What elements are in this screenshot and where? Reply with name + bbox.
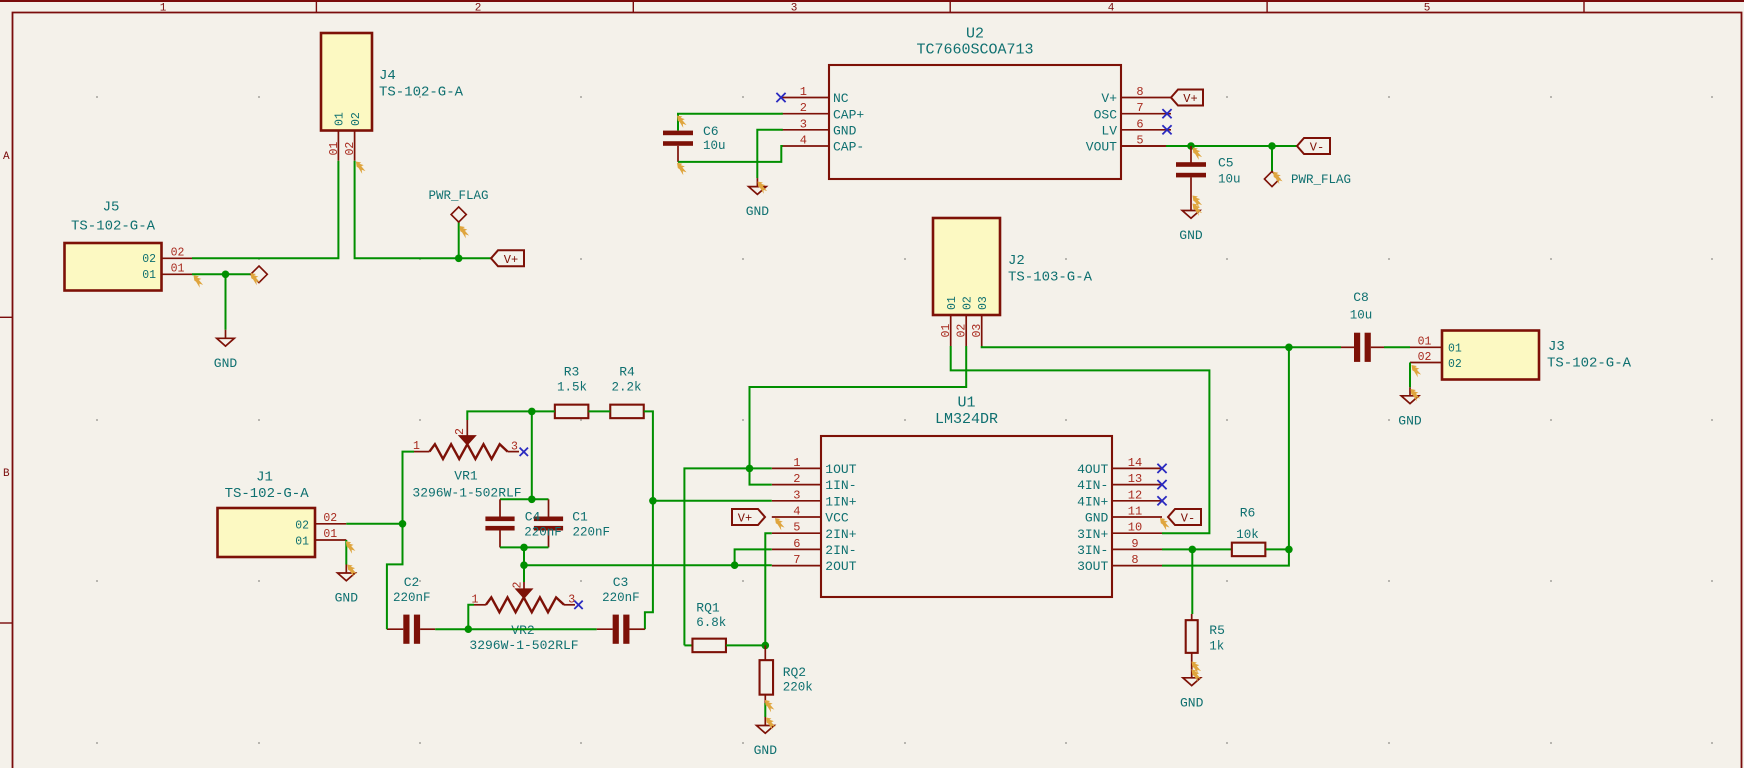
svg-text:01: 01 <box>334 112 347 126</box>
svg-text:8: 8 <box>1131 553 1138 567</box>
wire U2 CAP+ to C6 <box>678 114 783 131</box>
svg-text:C2: C2 <box>404 575 420 590</box>
junction R3 left node <box>528 408 536 416</box>
svg-text:3OUT: 3OUT <box>1077 559 1108 574</box>
svg-text:2: 2 <box>512 582 525 589</box>
junction J5.01 <box>222 271 230 279</box>
svg-text:6: 6 <box>1136 117 1143 131</box>
power label V+ at U2 pin 8 <box>1171 90 1203 107</box>
wire PWR_FLAG stem <box>458 222 460 258</box>
U1 pin 14 4OUT <box>1077 456 1162 477</box>
wire to GND at J5 <box>225 274 227 330</box>
marker arrow <box>1160 518 1170 530</box>
svg-text:4: 4 <box>793 505 800 519</box>
capacitor C2 <box>387 575 435 644</box>
marker arrow <box>1411 389 1421 401</box>
svg-text:2OUT: 2OUT <box>825 559 856 574</box>
ground GND (J3) <box>1398 387 1422 428</box>
svg-text:C1: C1 <box>572 510 588 525</box>
U1 pin 8 3OUT <box>1077 553 1162 574</box>
svg-text:02: 02 <box>956 324 969 338</box>
marker arrow <box>194 275 204 287</box>
wire C2 to VR2 node <box>435 628 468 630</box>
U2 pin 4 CAP- <box>781 134 864 155</box>
wire VR1 wiper to R3 <box>467 411 555 420</box>
power label V+ at U1 VCC <box>732 509 765 526</box>
connector J2 <box>933 218 1093 346</box>
svg-text:8: 8 <box>1136 85 1143 99</box>
wire PWR_FLAG V- stem <box>1271 146 1273 172</box>
U1 pin 2 1IN- <box>772 472 857 493</box>
svg-text:1: 1 <box>800 85 807 99</box>
svg-text:4IN-: 4IN- <box>1077 478 1108 493</box>
svg-text:02: 02 <box>1448 358 1462 371</box>
op-amp U1 LM324DR body <box>821 395 1112 598</box>
svg-text:3: 3 <box>793 488 800 502</box>
svg-text:1: 1 <box>793 456 800 470</box>
svg-text:220nF: 220nF <box>573 525 611 539</box>
svg-text:J3: J3 <box>1548 339 1565 355</box>
svg-text:1k: 1k <box>1209 639 1224 653</box>
svg-text:U2: U2 <box>966 26 984 43</box>
junction C4/C1 top <box>528 496 536 504</box>
svg-text:5: 5 <box>1424 3 1431 15</box>
svg-text:7: 7 <box>1136 101 1143 115</box>
wire J1.02 to VR1 node <box>346 523 402 525</box>
U1 pin 10 3IN+ <box>1077 521 1162 542</box>
svg-text:02: 02 <box>962 296 975 310</box>
svg-text:4: 4 <box>800 134 807 148</box>
power flag PWR_FLAG (V- net) <box>1264 171 1351 187</box>
svg-text:10u: 10u <box>1218 173 1241 187</box>
svg-text:11: 11 <box>1128 505 1142 519</box>
svg-text:2.2k: 2.2k <box>611 380 641 394</box>
ground GND (C5) <box>1179 202 1203 243</box>
marker arrow <box>1412 365 1422 377</box>
U1 pin 1 1OUT <box>772 456 857 477</box>
potentiometer VR2 3296W-1-502RLF <box>469 582 578 654</box>
junction RQ1/RQ2/2IN+ <box>762 642 770 650</box>
svg-text:J1: J1 <box>256 470 273 486</box>
svg-text:C8: C8 <box>1353 290 1369 305</box>
U2 pin 3 GND <box>781 117 857 138</box>
svg-text:LM324DR: LM324DR <box>935 411 998 428</box>
svg-text:V+: V+ <box>1183 92 1197 106</box>
svg-text:6.8k: 6.8k <box>696 616 726 630</box>
no-connect X U2 pin 6 <box>1162 125 1171 134</box>
svg-text:TS-103-G-A: TS-103-G-A <box>1008 270 1093 286</box>
no-connect X U2 pin 7 <box>1162 109 1171 118</box>
wire J4.02 to V+ flag <box>355 161 491 259</box>
resistor RQ2 <box>760 645 813 703</box>
capacitor C3 <box>597 575 645 644</box>
C1 value labels <box>572 510 610 540</box>
svg-text:CAP-: CAP- <box>833 140 864 155</box>
wire U1 3OUT loop <box>1162 549 1289 565</box>
U2 pin 5 VOUT <box>1086 134 1171 155</box>
wire 2IN- drop <box>735 549 772 565</box>
wire U2 VOUT to V- <box>1121 145 1297 147</box>
svg-text:3: 3 <box>791 3 798 15</box>
svg-text:2IN+: 2IN+ <box>825 527 856 542</box>
svg-text:01: 01 <box>1418 336 1432 349</box>
svg-text:A: A <box>3 151 10 163</box>
svg-text:B: B <box>3 468 10 480</box>
marker arrow <box>1192 670 1202 682</box>
wire U2 CAP- to C6 bottom <box>678 146 783 162</box>
connector J1 <box>218 470 347 558</box>
svg-text:OSC: OSC <box>1094 107 1118 122</box>
svg-text:1: 1 <box>160 3 167 15</box>
wire R3 node down to C4/C1 <box>531 411 533 499</box>
junction C5 top <box>1187 142 1195 150</box>
svg-text:PWR_FLAG: PWR_FLAG <box>1291 173 1351 187</box>
junction 2IN- on 2OUT rail <box>731 561 739 569</box>
svg-text:3: 3 <box>568 594 575 607</box>
svg-text:2: 2 <box>793 472 800 486</box>
svg-text:TC7660SCOA713: TC7660SCOA713 <box>916 42 1033 59</box>
ground GND (U2) <box>746 178 770 219</box>
capacitor C4 <box>485 499 514 547</box>
svg-text:3IN+: 3IN+ <box>1077 527 1108 542</box>
svg-text:GND: GND <box>1180 695 1204 710</box>
junction 1IN+ node <box>649 497 657 505</box>
wire VR2 node to C3 <box>468 628 596 630</box>
marker arrow <box>251 273 261 285</box>
svg-text:4IN+: 4IN+ <box>1077 494 1108 509</box>
svg-text:LV: LV <box>1101 123 1117 138</box>
svg-text:GND: GND <box>335 591 359 606</box>
U1 pin 12 4IN+ <box>1077 488 1162 509</box>
wire J5.02 to J4.01 <box>192 161 338 259</box>
potentiometer VR1 3296W-1-502RLF <box>412 420 521 500</box>
power flag PWR_FLAG (V+ net) <box>428 189 488 222</box>
resistor R4 <box>610 365 644 419</box>
svg-text:VR2: VR2 <box>511 623 534 638</box>
svg-text:2: 2 <box>454 428 467 435</box>
resistor R3 <box>555 365 589 419</box>
capacitor C8 <box>1350 290 1373 362</box>
svg-text:C5: C5 <box>1218 156 1234 171</box>
junction 1OUT <box>746 465 754 473</box>
svg-text:220nF: 220nF <box>524 525 562 539</box>
C4 value labels <box>524 510 562 540</box>
svg-text:J2: J2 <box>1008 253 1025 269</box>
wire RQ2 to ground <box>764 703 766 717</box>
svg-text:02: 02 <box>344 142 357 156</box>
svg-text:3296W-1-502RLF: 3296W-1-502RLF <box>412 485 521 500</box>
power label V- <box>1297 138 1330 155</box>
svg-text:9: 9 <box>1131 537 1138 551</box>
wire J1.02 node up to VR1 pin1 <box>403 452 415 524</box>
svg-text:01: 01 <box>323 528 337 541</box>
wire C8 left lead <box>1289 346 1354 348</box>
svg-text:1IN-: 1IN- <box>825 478 856 493</box>
no-connect X VR2 pin 3 <box>574 601 582 609</box>
ground GND (J1) <box>335 565 359 606</box>
svg-text:02: 02 <box>142 253 156 266</box>
svg-text:5: 5 <box>793 521 800 535</box>
svg-text:02: 02 <box>1418 351 1432 364</box>
no-connect X VR1 pin 3 <box>520 448 528 456</box>
svg-text:02: 02 <box>171 247 185 260</box>
connector J4 <box>321 33 464 161</box>
marker arrow <box>1192 662 1202 674</box>
U2 pin 6 LV <box>1101 117 1171 138</box>
marker arrow <box>356 162 366 174</box>
junction VR2 wiper node <box>520 561 528 569</box>
svg-text:TS-102-G-A: TS-102-G-A <box>225 486 310 502</box>
wire 1IN+ from R4/C3 node <box>653 500 772 502</box>
junction PWR_FLAG/V+ <box>455 254 463 262</box>
connector J5 <box>65 200 193 291</box>
svg-text:VR1: VR1 <box>454 469 478 484</box>
svg-text:01: 01 <box>328 142 341 156</box>
U1 pin 3 1IN+ <box>772 488 857 509</box>
svg-text:J5: J5 <box>103 200 120 216</box>
svg-text:C6: C6 <box>703 124 719 139</box>
junction 3IN-/R5 <box>1189 546 1197 554</box>
power label V- at U1 pin 11 <box>1168 509 1201 526</box>
svg-text:02: 02 <box>323 512 337 525</box>
wire VR2 pin1 elbow <box>468 605 474 629</box>
svg-text:RQ1: RQ1 <box>696 601 720 616</box>
U1 pin 13 4IN- <box>1077 472 1162 493</box>
svg-text:01: 01 <box>142 269 156 282</box>
svg-text:CAP+: CAP+ <box>833 107 864 122</box>
svg-text:NC: NC <box>833 91 849 106</box>
U1 pin 6 2IN- <box>772 537 857 558</box>
wire C8 node down to R6/3OUT <box>1288 347 1290 549</box>
svg-text:GND: GND <box>1179 228 1203 243</box>
svg-text:3296W-1-502RLF: 3296W-1-502RLF <box>469 638 578 653</box>
svg-text:GND: GND <box>1085 511 1109 526</box>
svg-text:10k: 10k <box>1236 528 1259 542</box>
capacitor C5 <box>1176 146 1241 202</box>
svg-text:R4: R4 <box>619 365 635 380</box>
wire J5.01 to PWR_FLAG diamond <box>192 273 251 275</box>
svg-text:2IN-: 2IN- <box>825 543 856 558</box>
U2 pin 7 OSC <box>1094 101 1171 122</box>
wire caps bottom to 2OUT rail <box>523 547 525 565</box>
wire J2.03 to C8 <box>982 346 1289 347</box>
wire U1 3IN- to R6 <box>1162 548 1231 550</box>
svg-text:01: 01 <box>940 324 953 338</box>
svg-text:3: 3 <box>511 441 518 454</box>
junction C4/C1 bottom <box>520 544 528 552</box>
svg-text:VCC: VCC <box>825 511 849 526</box>
svg-text:V+: V+ <box>504 253 518 267</box>
wire J1.01 to ground <box>345 540 347 565</box>
connector J3 <box>1410 331 1632 380</box>
marker arrow <box>1273 172 1283 184</box>
svg-text:14: 14 <box>1128 456 1142 470</box>
junction PWR_FLAG V- <box>1268 142 1276 150</box>
svg-text:J4: J4 <box>379 68 396 84</box>
svg-text:10: 10 <box>1128 521 1142 535</box>
svg-text:V+: V+ <box>738 512 752 526</box>
wire J2.01 to U1 3IN+ <box>951 346 1210 533</box>
svg-text:V-: V- <box>1310 141 1324 155</box>
svg-text:TS-102-G-A: TS-102-G-A <box>379 85 464 101</box>
op IC U2 TC7660SCOA713 body <box>829 26 1121 180</box>
marker arrow <box>1193 148 1203 160</box>
resistor R6 <box>1232 506 1266 557</box>
power label V+ <box>491 250 524 266</box>
wire 1OUT to 1IN- <box>750 468 772 484</box>
U1 pin 7 2OUT <box>772 553 857 574</box>
wire J3.02 to ground <box>1409 363 1411 388</box>
svg-text:02: 02 <box>295 519 309 532</box>
marker arrow <box>1193 196 1203 208</box>
wire R3 to R4 <box>588 410 610 412</box>
junction C2/VR2 <box>465 625 473 633</box>
wire RQ1 left lead <box>684 644 692 646</box>
wire RQ1 right to junction <box>726 644 765 646</box>
U2 pin 8 V+ <box>1101 85 1171 106</box>
svg-text:2: 2 <box>475 3 482 15</box>
no-connect X U1 pin 12 <box>1157 496 1166 505</box>
junction J1.02 <box>399 520 407 528</box>
no-connect X U1 pin 13 <box>1157 480 1166 489</box>
svg-text:1.5k: 1.5k <box>557 380 587 394</box>
svg-text:12: 12 <box>1128 488 1142 502</box>
svg-text:2: 2 <box>800 101 807 115</box>
svg-text:7: 7 <box>793 553 800 567</box>
svg-text:R5: R5 <box>1209 623 1225 638</box>
marker arrow <box>766 718 776 730</box>
capacitor C1 <box>534 499 563 547</box>
svg-text:C3: C3 <box>613 575 629 590</box>
svg-text:TS-102-G-A: TS-102-G-A <box>71 219 156 235</box>
wire U1 1OUT node <box>684 468 771 645</box>
marker arrow <box>677 116 687 128</box>
svg-text:01: 01 <box>1448 343 1462 356</box>
capacitor C6 <box>663 124 726 162</box>
wire J1.02 node down to C2 <box>387 524 403 629</box>
U1 pin 9 3IN- <box>1077 537 1162 558</box>
marker arrow <box>775 518 785 530</box>
svg-text:4OUT: 4OUT <box>1077 462 1108 477</box>
svg-text:220k: 220k <box>783 681 813 695</box>
ground GND (R5) <box>1180 669 1204 710</box>
U2 pin 2 CAP+ <box>781 101 864 122</box>
resistor R5 <box>1186 614 1225 669</box>
svg-text:V-: V- <box>1181 512 1195 526</box>
resistor RQ1 <box>692 601 726 653</box>
wire C8 right lead to J3.01 <box>1371 346 1410 348</box>
svg-text:1: 1 <box>413 440 420 453</box>
U1 pin 11 GND <box>1085 505 1162 526</box>
svg-text:03: 03 <box>977 296 990 310</box>
U1 pin 4 VCC <box>772 505 849 526</box>
wire C4/C1 top rail <box>500 498 549 500</box>
marker arrow <box>460 226 470 238</box>
svg-text:220nF: 220nF <box>393 591 431 605</box>
svg-text:GND: GND <box>746 204 770 219</box>
wire J2.02 to U1 1OUT <box>750 346 967 468</box>
svg-text:4: 4 <box>1108 3 1115 15</box>
wire wiper stem VR2 <box>523 565 525 582</box>
svg-text:VOUT: VOUT <box>1086 140 1117 155</box>
svg-text:6: 6 <box>793 537 800 551</box>
svg-text:02: 02 <box>350 112 363 126</box>
wire R4 right down to C3 <box>644 411 653 629</box>
marker arrow <box>758 182 768 194</box>
wire C4/C1 bottom rail <box>500 546 549 548</box>
svg-text:10u: 10u <box>703 139 726 153</box>
marker arrow <box>346 541 356 553</box>
svg-text:C4: C4 <box>525 510 541 525</box>
svg-text:01: 01 <box>946 296 959 310</box>
svg-text:R6: R6 <box>1240 506 1256 521</box>
svg-text:220nF: 220nF <box>602 591 640 605</box>
marker arrow <box>765 700 775 712</box>
power flag (diamond) at J5.01 <box>251 266 268 283</box>
U1 pin 5 2IN+ <box>772 521 857 542</box>
svg-text:1IN+: 1IN+ <box>825 494 856 509</box>
marker arrow <box>1193 204 1203 216</box>
wire 2IN+ down to RQ1/RQ2 <box>765 533 772 645</box>
svg-text:3IN-: 3IN- <box>1077 543 1108 558</box>
wire R6 right to vertical <box>1266 548 1289 550</box>
svg-text:GND: GND <box>214 356 238 371</box>
no-connect X U1 pin 14 <box>1157 464 1166 473</box>
svg-text:GND: GND <box>754 743 778 758</box>
svg-text:01: 01 <box>295 535 309 548</box>
marker arrow <box>677 163 687 175</box>
svg-text:PWR_FLAG: PWR_FLAG <box>428 189 488 203</box>
ground GND (J5) <box>214 330 238 371</box>
no-connect X U2 pin 1 <box>776 93 785 102</box>
svg-text:TS-102-G-A: TS-102-G-A <box>1547 356 1632 372</box>
ground GND (RQ2) <box>754 717 778 758</box>
svg-text:V+: V+ <box>1101 91 1117 106</box>
svg-text:RQ2: RQ2 <box>783 665 806 680</box>
junction C8 node <box>1285 344 1293 352</box>
wire 2OUT rail <box>524 564 772 566</box>
svg-text:1OUT: 1OUT <box>825 462 856 477</box>
wire R5 top <box>1191 549 1193 614</box>
svg-text:01: 01 <box>171 263 185 276</box>
svg-text:13: 13 <box>1128 472 1142 486</box>
svg-text:U1: U1 <box>957 395 975 412</box>
svg-text:03: 03 <box>971 324 984 338</box>
junction R6/3OUT <box>1285 546 1293 554</box>
svg-text:3: 3 <box>800 117 807 131</box>
svg-text:GND: GND <box>833 123 857 138</box>
marker arrow <box>347 565 357 577</box>
U2 pin 1 NC <box>781 85 849 106</box>
svg-text:R3: R3 <box>564 365 580 380</box>
svg-text:10u: 10u <box>1350 308 1373 322</box>
svg-text:GND: GND <box>1398 413 1422 428</box>
wire U2 GND pin to ground <box>757 130 783 178</box>
